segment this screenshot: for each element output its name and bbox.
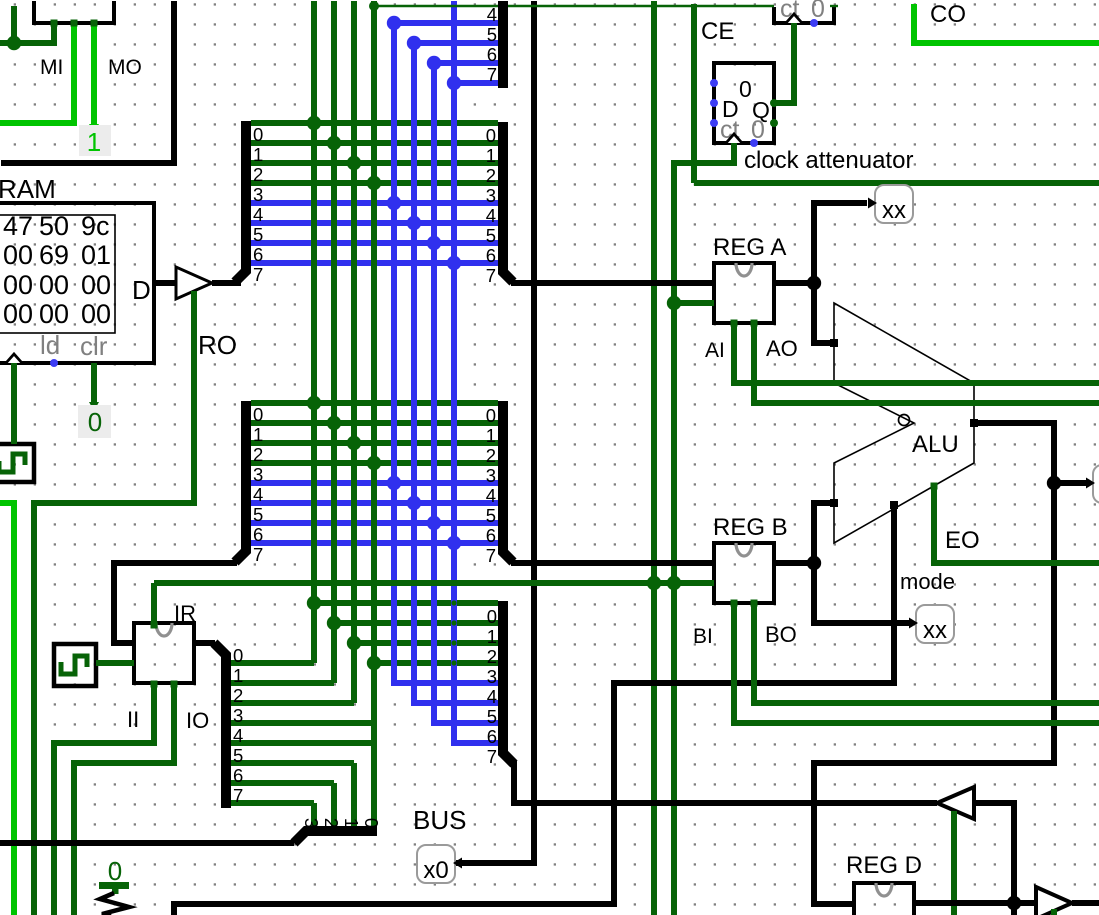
wire II <box>54 683 154 915</box>
wire IO <box>74 683 174 915</box>
svg-text:MO: MO <box>108 56 142 79</box>
svg-text:9c: 9c <box>81 211 110 241</box>
wire MO probe feed <box>91 23 97 127</box>
svg-text:3: 3 <box>253 464 263 485</box>
wire BO <box>754 603 1099 703</box>
crossbar2 green row 0 wire <box>251 400 498 406</box>
svg-text:0: 0 <box>486 405 496 426</box>
svg-text:3: 3 <box>301 818 322 828</box>
IR splitter row 3 wire <box>230 720 376 726</box>
RAM ld pin dot <box>50 359 58 367</box>
svg-text:47: 47 <box>3 211 33 241</box>
svg-text:0: 0 <box>361 818 382 828</box>
control box pin caps <box>51 20 58 27</box>
junction dot (813,562) <box>807 556 821 570</box>
svg-text:6: 6 <box>253 524 263 545</box>
green bus column bit1 (x=333) <box>331 1 337 683</box>
svg-text:clr: clr <box>80 331 108 361</box>
probe value 1 (MO) <box>79 125 111 156</box>
svg-text:7: 7 <box>233 785 243 806</box>
tri-state buffer left-pointing <box>937 787 974 819</box>
splitter mini bar <box>294 831 377 843</box>
wire clr probe arrow <box>89 402 99 411</box>
splitter IR bar <box>214 643 226 808</box>
svg-text:5: 5 <box>486 505 496 526</box>
svg-text:BO: BO <box>765 622 797 647</box>
svg-text:3: 3 <box>487 666 497 687</box>
mini-splitter feed wire bit3 <box>311 803 317 827</box>
wire IR clock in <box>96 660 134 666</box>
tunnel xx (right edge, partial) <box>1093 465 1099 503</box>
junction dot (813,282) <box>807 276 821 290</box>
wire EO <box>934 485 1099 563</box>
junction dot splitter3 row 3 <box>367 656 381 670</box>
ALU notch circle <box>899 415 910 426</box>
flip-flop FF1 box <box>714 63 774 143</box>
splitter S2L bar (crossbar2 left) <box>235 401 246 562</box>
wire CE long horizontal y=182 <box>694 180 1099 186</box>
junction dot (1053,482) <box>1047 476 1061 490</box>
junction dot crossbar2 green row 2 <box>347 436 361 450</box>
IR splitter row 7 wire <box>230 800 314 806</box>
wire REG A out to ALU A <box>814 283 834 343</box>
junction dot splitter3 row 0 <box>307 596 321 610</box>
svg-text:6: 6 <box>487 726 497 747</box>
wire REG D right out <box>914 900 1036 906</box>
green bus column bit3 (x=373) <box>371 1 377 827</box>
svg-text:0: 0 <box>233 645 243 666</box>
wire MI bright green <box>0 23 74 123</box>
green wire CE column (x=653) <box>651 1 657 915</box>
svg-text:6: 6 <box>487 44 497 65</box>
svg-text:4: 4 <box>253 484 263 505</box>
ALU pin B cap <box>830 499 838 507</box>
REG A bottom pin caps <box>731 320 738 327</box>
junction dot crossbar1 blue row 4 <box>387 196 401 210</box>
crossbar2 green row 2 wire <box>251 440 498 446</box>
wire RAM D to buffer <box>154 280 176 286</box>
clock CLK2 waveform <box>61 656 87 674</box>
wire right buffer out <box>1072 900 1099 906</box>
register REG D notch <box>876 883 892 896</box>
svg-text:2: 2 <box>486 445 496 466</box>
svg-text:3: 3 <box>486 185 496 206</box>
junction dot crossbar2 green row 0 <box>307 396 321 410</box>
register IR notch <box>156 623 172 636</box>
crossbar1 blue row 5 wire <box>251 220 498 226</box>
svg-text:1: 1 <box>233 665 243 686</box>
IR splitter row 1 wire <box>230 680 334 686</box>
IR splitter row 2 wire <box>230 700 354 706</box>
junction dot splitter3 row 1 <box>327 616 341 630</box>
svg-text:BUS: BUS <box>413 805 466 835</box>
svg-text:00: 00 <box>81 270 111 300</box>
svg-text:0: 0 <box>487 606 497 627</box>
splitter3 green row 3 wire <box>374 660 498 666</box>
junction dot (13,42) <box>7 36 21 50</box>
svg-text:0: 0 <box>486 125 496 146</box>
wire RO enable <box>34 291 194 915</box>
wire REG A out <box>774 280 814 286</box>
flip-flop FF2 clock triangle <box>786 14 802 23</box>
junction dot (1013,902) <box>1007 896 1021 910</box>
junction dot crossbar2 blue row 7 <box>447 536 461 550</box>
IR bottom pin caps <box>151 681 158 688</box>
svg-text:6: 6 <box>486 245 496 266</box>
splitter S3R bar <box>503 601 514 764</box>
svg-text:5: 5 <box>486 225 496 246</box>
svg-text:3: 3 <box>253 184 263 205</box>
svg-text:1: 1 <box>253 424 263 445</box>
wire bright green left column <box>0 503 14 915</box>
crossbar1 green row 2 wire <box>251 160 498 166</box>
RAM data window <box>0 215 115 333</box>
svg-text:7: 7 <box>253 264 263 285</box>
wire splitter2 to IR <box>114 563 237 643</box>
svg-text:2: 2 <box>233 685 243 706</box>
svg-text:AI: AI <box>705 339 725 362</box>
wire to tunnel xx2 <box>814 563 909 623</box>
register REG D box (partial) <box>854 883 914 915</box>
wire CO bright green <box>914 4 1099 43</box>
black bus wire (x=533) <box>455 1 534 863</box>
junction dot crossbar1 blue row 5 <box>407 216 421 230</box>
tunnel xx (REG A out) <box>875 185 913 223</box>
junction dot crossbar1 blue row 6 <box>427 236 441 250</box>
wire thin green top y=6 <box>374 5 774 7</box>
svg-text:IO: IO <box>186 708 209 733</box>
control unit box (partial, top-left) <box>34 1 114 23</box>
wire clock distribution y=582 <box>151 583 157 623</box>
svg-text:RAM: RAM <box>0 174 56 204</box>
splitter3 green row 1 wire <box>334 620 498 626</box>
top splitter row 4 stub <box>394 20 498 26</box>
blue bus column bit4 (x=393) <box>394 23 498 683</box>
svg-text:mode: mode <box>900 569 955 594</box>
svg-text:2: 2 <box>486 165 496 186</box>
junction dot (373,6) <box>369 1 379 11</box>
svg-text:50: 50 <box>39 211 69 241</box>
probe value 0 (clr) <box>78 405 111 438</box>
wire RAM clock feed <box>11 363 17 444</box>
register REG B notch <box>736 543 752 556</box>
crossbar2 blue row 7 wire <box>251 540 498 546</box>
crossbar2 blue row 6 wire <box>251 520 498 526</box>
green clock wire column (x=673) <box>674 143 734 915</box>
junction dot crossbar2 green row 1 <box>327 416 341 430</box>
junction dot crossbar2 blue row 6 <box>427 516 441 530</box>
wire AO <box>754 323 1099 403</box>
svg-text:5: 5 <box>253 504 263 525</box>
wire below dot 1013 <box>1011 903 1017 915</box>
wire right buffer enable <box>1051 909 1057 915</box>
svg-text:1: 1 <box>253 144 263 165</box>
crossbar2 green row 1 wire <box>251 420 498 426</box>
zigzag component (bottom left) <box>100 893 129 915</box>
svg-text:7: 7 <box>487 746 497 767</box>
svg-text:6: 6 <box>233 765 243 786</box>
IR splitter row 6 wire <box>230 780 334 786</box>
tunnel xx (REG B out) <box>916 605 954 643</box>
wire black outer routing (around RAM) <box>1 1 174 163</box>
svg-text:5: 5 <box>253 224 263 245</box>
svg-text:CE: CE <box>701 18 734 45</box>
svg-text:4: 4 <box>487 686 497 707</box>
svg-text:xx: xx <box>923 617 947 644</box>
wire left-buffer enable <box>951 811 957 915</box>
wire horizontal into dot <box>0 25 54 43</box>
junction dot (673,582) <box>667 576 681 590</box>
svg-text:0: 0 <box>253 124 263 145</box>
IR splitter row 0 wire <box>230 660 314 666</box>
crossbar1 blue row 6 wire <box>251 240 498 246</box>
bottom component box (partial) <box>174 904 617 915</box>
wire FF1 Q to FF2 clock <box>774 23 794 103</box>
svg-text:7: 7 <box>486 265 496 286</box>
svg-text:00: 00 <box>39 299 69 329</box>
blue bus column bit6 (x=433) <box>434 63 498 723</box>
junction dot crossbar1 green row 1 <box>327 136 341 150</box>
wire IR out <box>194 640 215 646</box>
crossbar2 blue row 5 wire <box>251 500 498 506</box>
svg-text:0: 0 <box>739 76 752 102</box>
svg-text:00: 00 <box>39 270 69 300</box>
crossbar1 blue row 7 wire <box>251 260 498 266</box>
junction dot top splitter row 4 <box>387 16 401 30</box>
junction dot crossbar1 green row 2 <box>347 156 361 170</box>
crossbar1 blue row 4 wire <box>251 200 498 206</box>
svg-text:x0: x0 <box>423 857 448 884</box>
green bus column bit0 (x=313) <box>311 1 317 663</box>
wire REG A in2 <box>674 300 714 306</box>
wire ALU out <box>814 423 1054 904</box>
junction dot crossbar2 green row 3 <box>367 456 381 470</box>
svg-text:7: 7 <box>253 544 263 565</box>
svg-text:01: 01 <box>81 240 111 270</box>
svg-text:3: 3 <box>233 705 243 726</box>
svg-text:4: 4 <box>253 204 263 225</box>
svg-text:00: 00 <box>3 240 33 270</box>
wire REG A out up to tunnel <box>814 203 867 283</box>
FF1 pin dots <box>710 79 718 87</box>
splitter S1L bar (crossbar1 left) <box>235 121 246 282</box>
tri-state buffer RAM out <box>176 267 212 299</box>
IR splitter row 4 wire <box>230 740 376 746</box>
wire buffer to REG D net <box>974 803 1014 903</box>
wire control-out to RAM column <box>11 6 17 43</box>
tiny wire joint dots <box>271 120 276 125</box>
svg-text:0: 0 <box>108 856 122 886</box>
mini-splitter feed wire bit2 <box>331 783 337 827</box>
wire MO probe arrow <box>89 124 99 133</box>
junction dot top splitter row 7 <box>447 76 461 90</box>
ALU mode pin cap <box>890 501 898 509</box>
svg-text:00: 00 <box>81 299 111 329</box>
tri-state buffer bottom-right (partial) <box>1036 887 1072 915</box>
svg-text:1: 1 <box>486 425 496 446</box>
svg-text:BI: BI <box>693 625 713 648</box>
wire ALU out to right tunnel <box>1054 480 1087 486</box>
svg-text:7: 7 <box>487 64 497 85</box>
wire BI <box>734 603 1099 723</box>
green wire CE source (x=693) <box>691 4 697 183</box>
svg-text:REG D: REG D <box>846 852 922 879</box>
blue bus column bit5 (x=413) <box>414 43 498 703</box>
svg-text:EO: EO <box>945 527 980 554</box>
svg-text:II: II <box>127 707 139 732</box>
green bus column bit2 (x=353) <box>351 1 357 703</box>
register REG A notch <box>736 263 752 276</box>
junction dot (653,582) <box>647 576 661 590</box>
mini-splitter feed wire bit1 <box>351 763 357 827</box>
wire AI <box>734 323 1099 383</box>
IR splitter row 5 wire <box>230 760 354 766</box>
crossbar1 green row 3 wire <box>251 180 498 186</box>
svg-text:2: 2 <box>253 444 263 465</box>
svg-text:7: 7 <box>486 545 496 566</box>
wire bus to REG B <box>511 560 714 566</box>
junction dot crossbar1 green row 0 <box>307 116 321 130</box>
wire mini splitter out y=842 <box>0 840 294 846</box>
svg-text:6: 6 <box>486 525 496 546</box>
svg-text:REG A: REG A <box>713 234 786 261</box>
flip-flop FF2 box (partial) <box>774 7 834 23</box>
svg-text:69: 69 <box>39 240 69 270</box>
svg-text:00: 00 <box>3 299 33 329</box>
junction dot top splitter row 6 <box>427 56 441 70</box>
wire IR top pin stub <box>151 622 158 629</box>
svg-text:3: 3 <box>486 465 496 486</box>
junction dot crossbar1 green row 3 <box>367 176 381 190</box>
svg-text:D: D <box>132 275 151 305</box>
svg-text:5: 5 <box>487 706 497 727</box>
splitter3 green row 0 wire <box>314 600 498 606</box>
splitter S2R bar (crossbar2 right) <box>503 401 513 562</box>
svg-text:6: 6 <box>253 244 263 265</box>
ALU U1 outline <box>834 303 974 543</box>
junction dot crossbar1 blue row 7 <box>447 256 461 270</box>
blue bus column bit7 (x=453) <box>454 1 498 743</box>
crossbar2 green row 3 wire <box>251 460 498 466</box>
tunnel x0 (BUS) <box>417 845 455 883</box>
svg-text:5: 5 <box>487 24 497 45</box>
svg-text:REG B: REG B <box>713 514 788 541</box>
svg-text:ALU: ALU <box>912 431 959 458</box>
crossbar2 blue row 4 wire <box>251 480 498 486</box>
svg-text:AO: AO <box>766 336 798 361</box>
RAM clock input triangle <box>6 354 22 363</box>
svg-text:1: 1 <box>487 626 497 647</box>
wire buffer out to splitter <box>212 280 241 286</box>
flip-flop FF1 clock triangle <box>726 134 742 143</box>
junction dot crossbar2 blue row 5 <box>407 496 421 510</box>
crossbar1 green row 0 wire <box>251 120 498 126</box>
wire bus to REG A <box>511 280 714 286</box>
svg-text:1: 1 <box>486 145 496 166</box>
svg-text:2: 2 <box>487 646 497 667</box>
svg-text:1: 1 <box>87 127 101 157</box>
splitter S1R bar (crossbar1 right) <box>498 1 508 88</box>
wire REG B out to ALU B <box>814 503 834 563</box>
wire REG B out <box>774 560 814 566</box>
ALU EO pin cap <box>931 483 938 490</box>
top splitter row 5 stub <box>414 40 498 46</box>
RAM box <box>0 203 154 363</box>
svg-text:00: 00 <box>3 270 33 300</box>
svg-text:2: 2 <box>253 164 263 185</box>
svg-text:xx: xx <box>882 197 906 224</box>
svg-text:1: 1 <box>341 818 362 828</box>
svg-text:4: 4 <box>486 205 496 226</box>
svg-text:clock attenuator: clock attenuator <box>744 147 913 174</box>
junction dot top splitter row 5 <box>407 36 421 50</box>
wire splitter3 out y=802 <box>514 763 937 803</box>
wire RAM clr to probe <box>91 363 97 405</box>
FF2 top green stub <box>830 5 838 7</box>
svg-text:RO: RO <box>198 330 237 360</box>
clock CLK1 box <box>0 444 34 482</box>
FF2 pin dot <box>810 19 818 27</box>
junction dot crossbar2 blue row 4 <box>387 476 401 490</box>
top splitter row 7 stub <box>454 80 498 86</box>
svg-text:2: 2 <box>321 818 342 828</box>
svg-text:MI: MI <box>40 56 63 79</box>
splitter3 green row 2 wire <box>354 640 498 646</box>
wire ALU mode <box>614 505 894 901</box>
svg-text:0: 0 <box>253 404 263 425</box>
svg-text:0: 0 <box>88 407 102 437</box>
junction dot (673,302) <box>667 296 681 310</box>
svg-text:CO: CO <box>930 1 966 28</box>
ALU out pin cap <box>970 419 978 427</box>
register REG B box <box>714 543 774 603</box>
register IR box <box>134 623 194 683</box>
crossbar1 green row 1 wire <box>251 140 498 146</box>
svg-text:4: 4 <box>487 4 497 25</box>
svg-text:ld: ld <box>40 330 60 360</box>
clock CLK2 box <box>54 644 96 686</box>
register REG A box <box>714 263 774 323</box>
svg-text:4: 4 <box>233 725 243 746</box>
junction dot splitter3 row 2 <box>347 636 361 650</box>
clock CLK1 waveform <box>0 454 25 472</box>
top splitter row 6 stub <box>434 60 498 66</box>
svg-text:4: 4 <box>486 485 496 506</box>
svg-text:IR: IR <box>174 601 196 626</box>
REG B bottom pin caps <box>731 600 738 607</box>
svg-text:5: 5 <box>233 745 243 766</box>
ALU pin A cap <box>830 339 838 347</box>
